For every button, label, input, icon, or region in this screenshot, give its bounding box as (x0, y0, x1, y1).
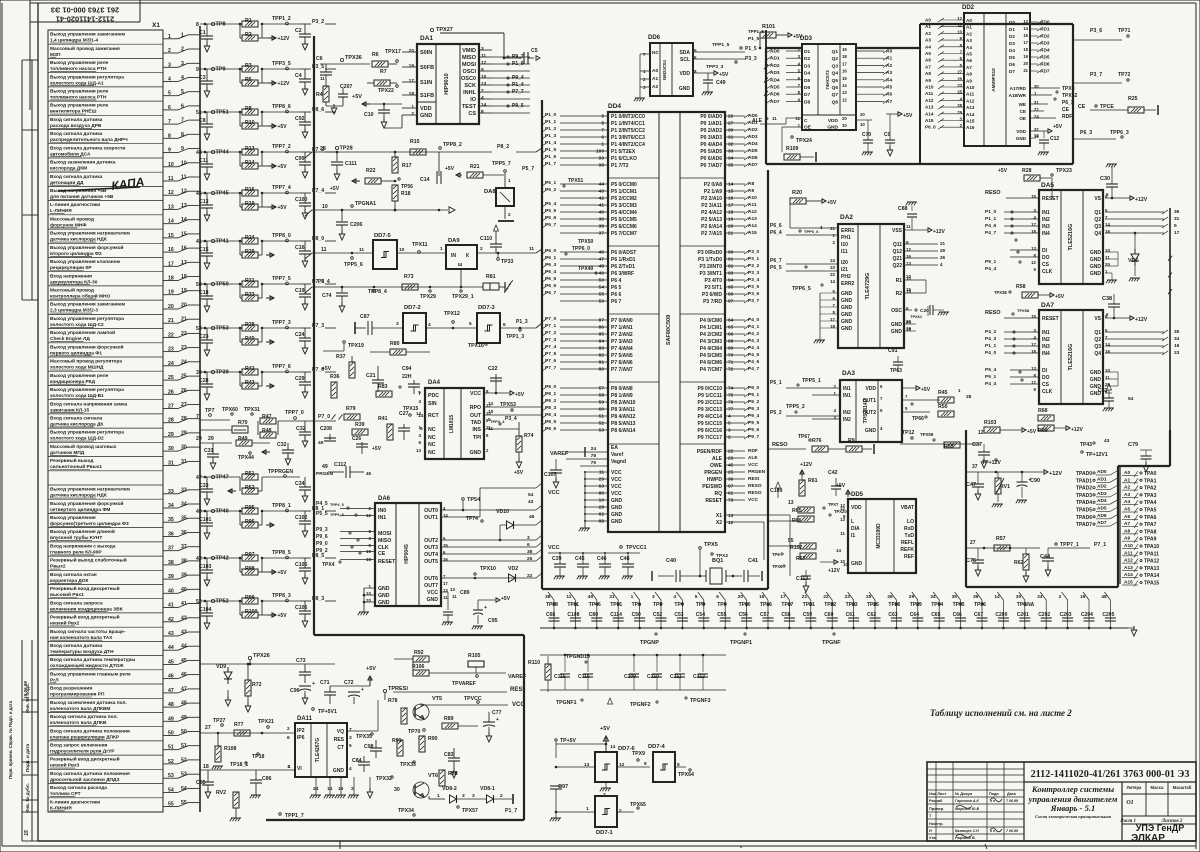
svg-text:VCC: VCC (611, 477, 622, 483)
svg-text:R103: R103 (984, 420, 997, 426)
svg-text:17: 17 (1023, 40, 1028, 45)
svg-text:Q4: Q4 (1094, 231, 1101, 237)
svg-text:23: 23 (728, 456, 734, 462)
svg-text:TP35: TP35 (953, 602, 965, 608)
svg-text:P7 4/AN4: P7 4/AN4 (611, 346, 633, 352)
svg-text:A1: A1 (966, 25, 972, 30)
svg-text:10: 10 (843, 562, 848, 567)
DD6 output wires (693, 42, 757, 70)
svg-text:+12V: +12V (278, 36, 290, 42)
DD4 left pin wires (542, 112, 608, 434)
svg-text:P7_0: P7_0 (318, 414, 330, 420)
DA3 input labels (770, 378, 840, 419)
test point TPX16 (468, 343, 487, 349)
svg-text:90: 90 (728, 250, 734, 256)
capacitor C82 (1098, 384, 1134, 411)
svg-text:C24: C24 (295, 332, 305, 338)
svg-text:C105: C105 (295, 562, 308, 568)
svg-text:Выход управления клапаном: Выход управления клапаном (50, 259, 121, 265)
svg-text:5: 5 (695, 594, 698, 600)
svg-text:88: 88 (599, 519, 605, 525)
svg-text:P2 4/A12: P2 4/A12 (701, 210, 722, 216)
svg-text:Изм Лист: Изм Лист (929, 792, 946, 796)
svg-text:RESO: RESO (985, 310, 1001, 316)
svg-text:PE/SWD: PE/SWD (702, 484, 722, 490)
wire to P7_5 (300, 279, 336, 285)
resistor R13 (240, 146, 258, 155)
svg-text:P5_4: P5_4 (985, 367, 997, 373)
svg-text:C19: C19 (295, 288, 305, 294)
svg-text:9: 9 (1034, 387, 1037, 392)
svg-text:11: 11 (320, 76, 325, 81)
svg-text:SAF80C509: SAF80C509 (666, 315, 672, 345)
svg-text:+12V: +12V (1135, 197, 1148, 203)
resistor R96 (239, 510, 274, 528)
svg-text:C8: C8 (199, 118, 206, 124)
svg-text:IN1: IN1 (843, 386, 851, 392)
resistor R48 (258, 421, 278, 438)
test point TP8 input branch (196, 22, 240, 53)
svg-text:22Н: 22Н (402, 374, 412, 380)
resistor R31 (240, 278, 258, 287)
resistors R68 R69 (1038, 408, 1110, 448)
svg-text:AD1: AD1 (1097, 476, 1107, 482)
svg-text:+5V: +5V (1053, 124, 1063, 130)
DA5 output wires (1105, 209, 1180, 283)
connector X1 table (48, 22, 163, 812)
svg-text:2: 2 (411, 111, 414, 117)
svg-text:76: 76 (728, 400, 734, 406)
svg-text:TP70: TP70 (408, 729, 421, 735)
svg-text:+12V: +12V (1049, 471, 1062, 477)
svg-text:C91: C91 (888, 348, 898, 354)
svg-text:TLE4729G: TLE4729G (865, 273, 871, 300)
resistor R88 (439, 770, 458, 786)
svg-text:C205: C205 (1102, 612, 1114, 618)
svg-text:S0IN: S0IN (420, 50, 432, 56)
svg-text:VD10: VD10 (496, 509, 509, 515)
DD7-6 ground pin (600, 782, 611, 798)
comparator DA9 (446, 238, 542, 269)
svg-text:GND: GND (1090, 264, 1102, 270)
svg-text:CS: CS (1042, 262, 1050, 268)
svg-text:17: 17 (443, 581, 448, 586)
svg-text:GND: GND (841, 319, 853, 325)
svg-text:C57: C57 (760, 612, 769, 618)
svg-text:+5V: +5V (514, 470, 524, 476)
svg-text:P8 5/AN13: P8 5/AN13 (611, 421, 636, 427)
test point TP53 input branch (196, 326, 240, 357)
svg-text:C68: C68 (546, 612, 555, 618)
svg-text:TPX16: TPX16 (468, 343, 484, 349)
svg-text:TP44: TP44 (216, 150, 230, 156)
resistor R15 (410, 139, 426, 155)
svg-text:RESO: RESO (772, 442, 788, 448)
svg-text:TP42: TP42 (216, 556, 229, 562)
test point TP7 branch (196, 407, 260, 420)
svg-text:91: 91 (728, 257, 734, 263)
svg-text:+5V: +5V (1027, 429, 1037, 435)
svg-text:TPX24: TPX24 (796, 138, 812, 144)
svg-text:RQ: RQ (715, 491, 723, 497)
test point TPP3_5 (262, 61, 300, 70)
svg-text:P9_6: P9_6 (316, 534, 328, 540)
svg-text:P3_2: P3_2 (312, 19, 324, 25)
svg-text:IN2: IN2 (1042, 217, 1050, 223)
svg-text:REFL: REFL (901, 540, 914, 546)
svg-text:A4: A4 (966, 45, 972, 50)
svg-text:P6 5: P6 5 (611, 285, 622, 291)
test point TP12 row (900, 430, 980, 444)
svg-text:P5 5/CCM5: P5 5/CCM5 (611, 217, 637, 223)
svg-text:54: 54 (599, 285, 605, 291)
capacitor C74 (322, 286, 348, 312)
svg-text:I1: I1 (851, 533, 855, 539)
svg-text:4: 4 (880, 426, 883, 431)
svg-text:AD1: AD1 (1040, 27, 1050, 33)
svg-text:Масса: Масса (1151, 785, 1165, 790)
svg-text:P9 5/CC15: P9 5/CC15 (698, 421, 723, 427)
svg-text:30: 30 (728, 128, 734, 134)
svg-text:Т: Т (929, 814, 932, 818)
svg-text:Гарнизов А.К: Гарнизов А.К (955, 799, 979, 803)
svg-text:10: 10 (860, 122, 865, 127)
svg-text:P6 7: P6 7 (611, 299, 622, 305)
test point TPP8_5 (262, 550, 300, 559)
svg-text:+5V: +5V (1055, 294, 1065, 300)
svg-text:I11: I11 (841, 249, 848, 255)
svg-text:15: 15 (24, 830, 30, 836)
svg-text:C37: C37 (972, 442, 982, 448)
svg-text:R6: R6 (372, 52, 379, 58)
svg-text:3: 3 (481, 46, 484, 52)
svg-text:TPP7_4: TPP7_4 (272, 185, 291, 191)
DD4 misc test point labels left (563, 178, 597, 274)
svg-text:A8: A8 (748, 181, 754, 187)
svg-text:P5 3/CCM3: P5 3/CCM3 (611, 203, 637, 209)
diode VD8-2 (437, 786, 465, 803)
svg-text:C204: C204 (1081, 612, 1093, 618)
svg-text:65: 65 (728, 325, 734, 331)
svg-text:P2 2/A10: P2 2/A10 (701, 196, 722, 202)
svg-text:NC: NC (652, 50, 659, 56)
svg-text:P4_0: P4_0 (985, 350, 997, 356)
svg-text:+12V: +12V (1071, 427, 1083, 433)
svg-text:C99: C99 (295, 156, 305, 162)
svg-text:P6_6: P6_6 (770, 223, 782, 229)
svg-text:RV2: RV2 (216, 790, 226, 796)
svg-text:дроссельной заслонки ДПДЗ: дроссельной заслонки ДПДЗ (50, 776, 119, 783)
svg-text:16: 16 (1034, 133, 1039, 138)
svg-text:Вход сигнала напряжения замка: Вход сигнала напряжения замка (50, 401, 127, 407)
svg-text:85: 85 (599, 332, 605, 338)
svg-text:A15: A15 (748, 230, 757, 236)
svg-text:REFK: REFK (900, 547, 914, 553)
svg-text:R20: R20 (792, 190, 802, 196)
signal conditioner DA4 LM1815 (416, 380, 491, 459)
svg-text:VSS: VSS (892, 228, 903, 234)
svg-text:72: 72 (728, 367, 734, 373)
svg-text:TP43: TP43 (1080, 442, 1092, 448)
svg-text:P4_4: P4_4 (985, 266, 997, 272)
svg-text:VI: VI (297, 766, 302, 772)
svg-text:C61: C61 (846, 612, 855, 618)
svg-text:46: 46 (588, 594, 594, 600)
svg-text:MISO: MISO (378, 538, 391, 544)
test point TP45 input branch (196, 191, 240, 222)
svg-text:ТРХ59: ТРХ59 (920, 432, 934, 437)
svg-text:X2: X2 (716, 520, 722, 526)
svg-text:TPA13: TPA13 (1144, 566, 1159, 572)
svg-text:P6_3: P6_3 (1062, 100, 1074, 106)
svg-text:TPX29: TPX29 (420, 294, 436, 300)
svg-text:41: 41 (599, 203, 605, 209)
svg-text:D7: D7 (1009, 69, 1015, 74)
svg-text:A2: A2 (652, 84, 658, 90)
svg-text:A9: A9 (966, 78, 972, 83)
svg-text:C207: C207 (340, 84, 353, 90)
svg-text:DD7-2: DD7-2 (404, 305, 421, 311)
svg-text:TPX36: TPX36 (345, 55, 362, 61)
svg-text:впускной трубы КУНТ: впускной трубы КУНТ (50, 534, 102, 541)
svg-text:4: 4 (349, 766, 352, 772)
logic gate DD7-2 (403, 305, 431, 343)
svg-text:Выход управления: Выход управления (50, 515, 96, 521)
svg-text:P6 3/WRF: P6 3/WRF (611, 271, 634, 277)
svg-text:TPP8_5: TPP8_5 (272, 550, 291, 556)
capacitors C115 C116 (540, 655, 726, 690)
svg-text:11: 11 (566, 594, 571, 600)
svg-text:22: 22 (830, 272, 835, 277)
svg-text:TPP3_3: TPP3_3 (706, 64, 724, 70)
svg-text:7: 7 (601, 128, 604, 134)
svg-text:TP67: TP67 (798, 434, 810, 440)
diode VD8-1 (457, 786, 513, 804)
test point TPP8_3 (262, 593, 300, 602)
svg-text:Утв.: Утв. (929, 836, 937, 840)
svg-text:TPA3: TPA3 (1144, 493, 1157, 499)
svg-text:Провер.: Провер. (929, 807, 944, 811)
svg-text:IN3: IN3 (1042, 344, 1050, 350)
resistor R108 (212, 732, 248, 770)
resistor R6 (372, 49, 401, 67)
svg-text:80: 80 (599, 367, 605, 373)
svg-text:Морозов Ю.В: Морозов Ю.В (955, 807, 979, 811)
svg-text:Вход сигнала датчика: Вход сигнала датчика (50, 131, 103, 137)
svg-text:R50: R50 (938, 404, 948, 410)
svg-text:S1FB: S1FB (420, 93, 434, 99)
svg-text:TP52: TP52 (216, 599, 229, 605)
capacitor C106 (295, 601, 311, 627)
connector X1 pin numbers and leads (163, 32, 200, 807)
varistor RV1 (992, 472, 1010, 507)
frame left column labels (8, 60, 38, 841)
capacitor C2 (295, 24, 311, 50)
svg-text:A6: A6 (966, 58, 972, 63)
svg-text:P5_1: P5_1 (770, 380, 782, 386)
svg-text:6: 6 (527, 542, 530, 548)
test point TPX21 (258, 719, 274, 734)
svg-text:6: 6 (287, 735, 290, 741)
svg-text:13: 13 (416, 448, 422, 453)
svg-text:VD2: VD2 (508, 566, 518, 572)
test point TPX19 (323, 341, 364, 351)
svg-text:GND: GND (1016, 136, 1027, 141)
svg-text:4К: 4К (318, 440, 324, 446)
svg-text:VCC: VCC (548, 545, 560, 551)
svg-text:TPA1: TPA1 (1144, 478, 1157, 484)
svg-text:3: 3 (643, 85, 646, 90)
resistor R53 (944, 442, 960, 450)
resistor R97 (240, 552, 258, 561)
svg-text:30: 30 (394, 787, 400, 793)
svg-text:+12V: +12V (1135, 317, 1148, 323)
svg-text:GND: GND (1090, 370, 1102, 376)
DD4 X1 X2 crystal wires (725, 513, 790, 576)
resistor R77 (234, 722, 250, 736)
svg-text:A6: A6 (925, 58, 931, 63)
svg-text:21: 21 (802, 594, 808, 600)
capacitor C32 (296, 421, 311, 447)
svg-text:TP51: TP51 (216, 110, 229, 116)
resistor R19 (239, 192, 288, 211)
svg-text:TP+5V: TP+5V (560, 738, 577, 744)
bus P1_5/P3_3 labels (748, 29, 764, 42)
svg-text:P1_5: P1_5 (745, 46, 757, 52)
svg-text:P9 1/CC11: P9 1/CC11 (698, 393, 722, 399)
svg-text:20: 20 (728, 224, 734, 230)
note text (930, 708, 1072, 718)
svg-text:59: 59 (599, 400, 605, 406)
handwritten mark КАПА (58, 175, 145, 193)
diode VD7 (1128, 232, 1140, 282)
svg-text:IN2: IN2 (1042, 337, 1050, 343)
svg-text:+5V: +5V (998, 168, 1008, 174)
svg-text:53: 53 (599, 428, 605, 434)
labels TPGNP TPGNP1 TPGNF (640, 633, 841, 646)
driver DA6 HIP0045 (366, 496, 448, 606)
svg-text:AD3: AD3 (1097, 491, 1107, 497)
svg-text:R68: R68 (1038, 408, 1048, 414)
svg-text:IP2: IP2 (297, 728, 305, 734)
svg-text:высокий Рвх1: высокий Рвх1 (50, 591, 84, 598)
wire TP+5V1 (312, 708, 337, 715)
svg-text:18: 18 (728, 210, 734, 216)
DA4 inner dividers (444, 388, 461, 459)
svg-text:6: 6 (716, 594, 719, 600)
svg-text:R21: R21 (470, 164, 480, 170)
svg-text:TPX52: TPX52 (1062, 93, 1078, 99)
svg-text:GND: GND (1090, 271, 1102, 277)
svg-text:Q2: Q2 (1094, 217, 1101, 223)
svg-text:TPA4: TPA4 (1144, 500, 1157, 506)
svg-text:R73: R73 (404, 274, 414, 280)
svg-text:44: 44 (196, 150, 202, 156)
svg-text:A11: A11 (925, 91, 934, 96)
svg-text:98: 98 (599, 163, 605, 169)
svg-text:TPP6_5: TPP6_5 (792, 286, 811, 292)
eeprom DD6 NM24C04 (634, 35, 697, 101)
svg-text:HIP9010: HIP9010 (444, 73, 450, 94)
svg-text:10: 10 (399, 247, 405, 253)
svg-text:51: 51 (599, 414, 605, 420)
svg-text:P5 0/CCM0: P5 0/CCM0 (611, 182, 637, 188)
svg-text:Вход сигнала сигнала: Вход сигнала сигнала (50, 416, 103, 422)
svg-text:38: 38 (545, 594, 551, 600)
svg-text:ТРХ7: ТРХ7 (828, 502, 839, 507)
test point TPRESI (383, 686, 408, 700)
svg-text:3: 3 (728, 428, 731, 434)
DA6 inner dividers (396, 503, 419, 606)
svg-text:P9 3/CC13: P9 3/CC13 (698, 407, 723, 413)
svg-text:49: 49 (599, 271, 605, 277)
svg-text:+5V: +5V (278, 164, 288, 170)
resistor R95 (240, 505, 258, 514)
svg-text:1: 1 (440, 246, 443, 252)
svg-text:P4 6/CM6: P4 6/CM6 (700, 360, 722, 366)
svg-text:C63: C63 (888, 612, 897, 618)
svg-text:TPX27: TPX27 (436, 27, 453, 33)
svg-text:5: 5 (1174, 223, 1177, 229)
wire P3_6 TP71 (1073, 28, 1131, 40)
svg-text:49: 49 (322, 464, 328, 470)
svg-text:автомобиля ДСА: автомобиля ДСА (50, 150, 91, 157)
svg-text:RESO: RESO (985, 190, 1001, 196)
svg-text:Выход управления регулятора: Выход управления регулятора (50, 74, 124, 80)
svg-text:39: 39 (196, 370, 202, 376)
DD4 right pin names (697, 114, 723, 526)
svg-text:MOSI: MOSI (378, 531, 392, 537)
svg-text:56: 56 (599, 299, 605, 305)
svg-text:3: 3 (472, 793, 475, 799)
svg-text:P2 1/A9: P2 1/A9 (704, 189, 722, 195)
svg-text:P6 2/TxD1: P6 2/TxD1 (611, 264, 635, 270)
resistor R8 (240, 106, 258, 115)
svg-text:A0: A0 (652, 68, 658, 74)
svg-text:2112-1411020-41/261 3763 000-0: 2112-1411020-41/261 3763 000-01 Э3 (1031, 769, 1190, 780)
svg-text:13: 13 (842, 90, 847, 95)
svg-text:74: 74 (728, 386, 734, 392)
DA3 output wires (890, 368, 940, 412)
svg-text:VCC: VCC (427, 590, 438, 596)
resistor R5 (239, 68, 290, 87)
svg-text:TPP7_0: TPP7_0 (285, 410, 304, 416)
capacitor C10 (364, 104, 402, 128)
svg-text:P2 6/A14: P2 6/A14 (701, 224, 722, 230)
svg-text:DI: DI (1042, 248, 1048, 254)
svg-text:TPP8_3: TPP8_3 (272, 593, 291, 599)
svg-text:C2: C2 (295, 28, 302, 34)
svg-text:IN1: IN1 (1042, 210, 1050, 216)
diode VD9 (216, 664, 232, 706)
svg-text:10: 10 (488, 409, 494, 415)
svg-text:C29: C29 (295, 376, 305, 382)
svg-text:Q5: Q5 (832, 78, 839, 84)
svg-text:+: + (361, 687, 364, 693)
svg-text:Q22: Q22 (893, 263, 903, 269)
capacitor C86 (250, 770, 272, 798)
capacitor C49 (702, 73, 726, 95)
svg-text:Литера: Литера (1127, 785, 1142, 790)
svg-text:Массовый провод зажигания: Массовый провод зажигания (50, 45, 120, 52)
resistor R89 (429, 716, 478, 729)
svg-text:TPP8_4: TPP8_4 (368, 289, 387, 295)
svg-text:P3 1/TxD0: P3 1/TxD0 (698, 257, 722, 263)
svg-text:TPP6_3: TPP6_3 (1110, 130, 1129, 136)
svg-text:R58: R58 (1016, 284, 1026, 290)
svg-text:P9_1: P9_1 (985, 259, 997, 265)
svg-text:TP36: TP36 (974, 602, 986, 608)
